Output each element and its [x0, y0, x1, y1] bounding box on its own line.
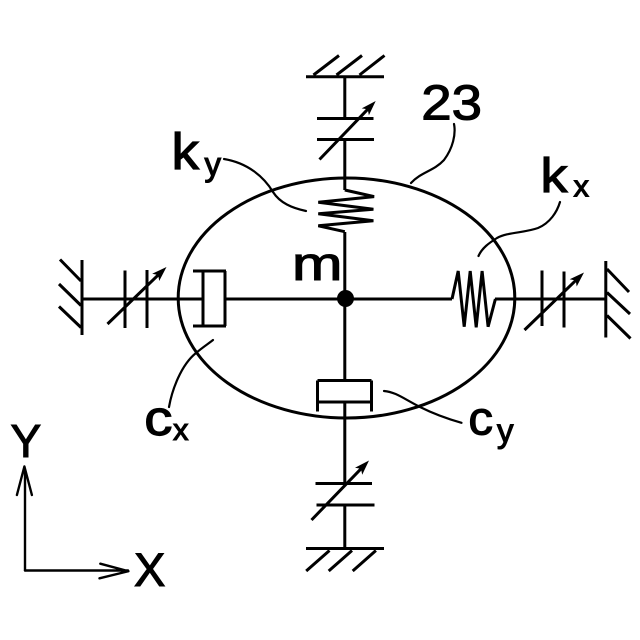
svg-text:y: y: [205, 146, 222, 183]
wire horizontal center segments: [82, 298, 606, 301]
svg-text:x: x: [173, 412, 189, 447]
svg-text:k: k: [172, 124, 200, 181]
svg-text:y: y: [497, 412, 514, 449]
adjustable arrow top: [320, 109, 369, 160]
mass point m (node): [337, 290, 354, 307]
adjustable symbol right (two bars): [542, 271, 564, 328]
svg-text:23: 23: [421, 75, 482, 130]
svg-text:x: x: [574, 169, 590, 204]
svg-text:c: c: [144, 391, 172, 446]
leader line for kx: [479, 202, 561, 256]
damper cy (bottom dashpot): [318, 381, 372, 412]
adjustable symbol top (two bars): [317, 119, 374, 140]
ground right wall: [606, 261, 631, 339]
leader line for cx: [169, 340, 213, 407]
svg-text:c: c: [468, 393, 493, 446]
adjustable symbol bottom (two bars): [316, 484, 375, 506]
svg-text:k: k: [541, 149, 568, 203]
ground top wall: [306, 56, 385, 77]
leader line for ky: [224, 159, 306, 211]
svg-text:m: m: [292, 238, 343, 290]
spring ky (top, vertical zigzag): [318, 190, 374, 232]
adjustable arrow left: [108, 274, 159, 324]
adjustable arrow right: [525, 280, 577, 330]
ellipse 23 (vibrating body boundary): [178, 178, 515, 418]
axis Y arrow: [17, 467, 32, 571]
adjustable symbol left (two bars): [125, 270, 147, 328]
adjustable arrow bottom: [312, 468, 362, 520]
spring kx (right, horizontal zigzag): [452, 271, 495, 327]
wire vertical center segments: [343, 77, 346, 548]
leader line for 23: [411, 124, 455, 183]
ground bottom wall: [306, 549, 384, 572]
axis X arrow: [25, 564, 128, 579]
svg-text:X: X: [134, 543, 165, 596]
svg-text:Y: Y: [11, 415, 42, 467]
leader line for cy: [384, 391, 462, 423]
damper cx (left dashpot): [193, 271, 226, 326]
ground left wall: [59, 260, 82, 336]
